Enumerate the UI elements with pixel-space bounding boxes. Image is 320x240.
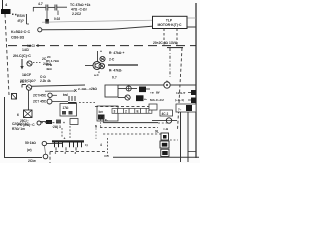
svg-text:TC 47kΩ +1k: TC 47kΩ +1k <box>70 3 91 7</box>
dots right of MIC block <box>12 14 14 16</box>
svg-text:R· 47kΩ·+: R· 47kΩ·+ <box>109 51 125 55</box>
label 0.02 <box>57 11 59 16</box>
svg-text:R7Ω/ 1m: R7Ω/ 1m <box>12 127 25 131</box>
wire: dark mid line from jack <box>42 28 110 30</box>
battery B1 cell 1 <box>161 133 169 140</box>
svg-text:2C?/45C: 2C?/45C <box>33 94 47 98</box>
svg-text:(w): (w) <box>27 148 32 152</box>
wire dashed mid 3 <box>103 133 161 135</box>
wire: rail from Q4 right <box>32 85 86 86</box>
connector J1 (mic jack circle) <box>38 28 42 32</box>
svg-text:×: × <box>98 71 100 75</box>
row 2: jack + plug <box>118 97 125 99</box>
svg-text:1): 1) <box>85 143 88 147</box>
wire: box right to border dark <box>187 26 196 28</box>
head block box B <box>60 104 77 117</box>
speaker box <box>176 104 196 112</box>
connector strip digits <box>112 109 152 114</box>
jack black box right edge 2 <box>188 99 191 101</box>
wire dashed vertical x96 <box>95 125 97 139</box>
wire solid mid <box>103 122 158 124</box>
connector J4 <box>42 141 46 145</box>
wire: light mid line <box>42 20 152 22</box>
wire: cap lead down from top line <box>46 11 48 20</box>
wire dashes to battery right <box>170 139 178 141</box>
wire: left solid vertical bottom <box>4 97 6 158</box>
capacitor C3 blob <box>45 19 49 24</box>
svg-text:X: X <box>74 88 77 93</box>
wire: dashed drop 1 from box <box>163 29 165 47</box>
svg-text:2C?: 2C? <box>20 80 26 84</box>
svg-text:50·1kΩ: 50·1kΩ <box>25 141 36 145</box>
svg-text:0.?: 0.? <box>112 76 117 80</box>
svg-text:12N·/7: 12N·/7 <box>176 91 186 95</box>
svg-text:14C/: 14C/ <box>22 48 29 52</box>
svg-text:CΩ6·3Ω: CΩ6·3Ω <box>11 36 25 40</box>
wire: left dashed bus vertical <box>5 14 9 95</box>
svg-text::E)?: :E)? <box>17 19 24 23</box>
wire: main dashed separator <box>8 45 196 47</box>
battery B1 cell 3 <box>161 149 169 156</box>
wire rail right to lamp <box>118 84 164 86</box>
svg-text:MOTOR·K(T)·C: MOTOR·K(T)·C <box>157 23 182 27</box>
svg-text:×·Ω: ×·Ω <box>163 127 169 131</box>
connector J2 <box>48 93 52 97</box>
svg-text:E·: E· <box>105 118 108 122</box>
svg-text:+: + <box>100 50 102 54</box>
small connector box left of speaker <box>149 104 157 110</box>
motor M1 circle bottom right <box>152 120 166 122</box>
transistor Q4 with bracket <box>22 84 26 86</box>
transistor Q1 circle <box>27 61 32 66</box>
node MIC label (black block top-left) <box>1 9 11 14</box>
svg-text:4.7: 4.7 <box>38 2 43 6</box>
coil blob under box B <box>46 120 52 124</box>
relay K1 box with X <box>24 110 33 118</box>
bottom border right segment <box>113 156 199 158</box>
right border <box>195 3 197 158</box>
ground arrow down <box>21 59 23 67</box>
mid-bottom wires <box>102 116 104 123</box>
left border top segment <box>2 0 4 10</box>
svg-text:2C? 45C: 2C? 45C <box>33 100 47 104</box>
svg-text:3: 3 <box>114 110 116 114</box>
wire lamp to border <box>170 84 196 86</box>
capacitor C2 plates <box>54 5 56 11</box>
wire to Q2 <box>85 65 93 67</box>
wire: dashed mid-bottom separator <box>95 106 155 108</box>
small marks row <box>56 120 61 124</box>
svg-text:av: av <box>156 91 160 95</box>
connector pins cluster <box>68 96 70 101</box>
wire dashed vertical to head 2 <box>69 126 71 138</box>
svg-text:7÷: 7÷ <box>178 108 182 112</box>
svg-text:6: 6 <box>17 113 19 117</box>
svg-text:17Ω: 17Ω <box>63 106 70 110</box>
grid cross short horizontal <box>188 151 196 153</box>
wire: dashed vertical right long <box>178 48 183 130</box>
record head RP1 <box>52 140 84 142</box>
lamp L1 <box>164 82 170 88</box>
svg-text:2N.C(C)·C: 2N.C(C)·C <box>13 54 31 58</box>
connector J3 <box>47 99 52 104</box>
wire: top line <box>33 6 46 8</box>
wire: dash-dot vertical left <box>169 48 171 77</box>
svg-text:+: + <box>63 121 65 125</box>
capacitor C4 bracket <box>26 14 28 24</box>
svg-text:+a·: +a· <box>150 91 154 95</box>
wire: bridge under separator right <box>167 47 183 49</box>
jack black box right edge 1 <box>188 92 191 94</box>
wire: box right to border light <box>187 17 196 19</box>
svg-text:20×2C 3Ω 13VΩ: 20×2C 3Ω 13VΩ <box>153 41 178 45</box>
svg-text:TLP: TLP <box>166 19 173 23</box>
svg-text:·2Ω| 3: ·2Ω| 3 <box>52 125 61 129</box>
bottom border left segment <box>4 157 42 159</box>
svg-text:tw/: tw/ <box>63 93 68 97</box>
wire: dashed drop 2 from box <box>176 29 178 47</box>
block box A (VU) <box>105 85 118 97</box>
svg-text:R· 47kΩ·: R· 47kΩ· <box>109 69 123 73</box>
svg-text:2·C: 2·C <box>109 58 115 62</box>
row 1: lamp + plug <box>118 88 126 90</box>
svg-text:47Ω ·C·Ωr: 47Ω ·C·Ωr <box>71 8 88 12</box>
verticals right grid <box>180 112 182 162</box>
svg-text:2kΩ: 2kΩ <box>91 87 98 91</box>
wire dashed vertical to head <box>61 128 63 138</box>
svg-text:a·: a· <box>166 79 169 83</box>
svg-text:1ΩCF: 1ΩCF <box>22 73 31 77</box>
bottom dashed box top edge <box>50 151 105 153</box>
wire dashed link to box C <box>79 102 95 104</box>
svg-text:4C 2: 4C 2 <box>162 112 169 116</box>
svg-text:0.02: 0.02 <box>54 17 60 21</box>
block box C with bold mark <box>97 106 118 121</box>
bottom dashed box left edge <box>49 152 51 163</box>
svg-text:ESV/: ESV/ <box>17 14 25 18</box>
wire mid rail 2 <box>45 90 75 92</box>
svg-text:2: 2 <box>125 110 127 114</box>
battery B1 cell 2 <box>160 141 169 148</box>
wire dashed mid 2 <box>100 127 158 129</box>
wire stub down at left of top line <box>32 7 34 11</box>
transistor Q2 circle <box>93 62 101 70</box>
svg-text:2.2C2: 2.2C2 <box>72 12 81 16</box>
svg-text:2C/w: 2C/w <box>28 159 36 163</box>
svg-text:2.2k 4k: 2.2k 4k <box>40 79 51 83</box>
svg-text:+-: +- <box>144 98 147 102</box>
svg-text:4kΩ: 4kΩ <box>46 67 52 71</box>
head pins <box>55 147 57 150</box>
svg-text:b×: b× <box>99 110 104 114</box>
node junction dot on separator <box>37 44 39 46</box>
svg-text:MA·C+C2: MA·C+C2 <box>150 98 164 102</box>
wire dashes from Q1 <box>33 62 41 64</box>
svg-text:K=5Ω2·C·C: K=5Ω2·C·C <box>11 30 30 34</box>
capacitor C1 plates <box>45 5 47 11</box>
small outline box <box>70 119 78 125</box>
wire: Q4 emitter down <box>28 90 30 110</box>
switch S1 on left bus <box>12 94 17 100</box>
counter box <box>160 110 173 116</box>
wire dashed vertical small <box>100 116 102 127</box>
svg-text:(+C·4): (+C·4) <box>175 98 184 102</box>
wire Q2 collector up <box>97 51 99 62</box>
svg-text:C2C/Ω? 1C: C2C/Ω? 1C <box>12 122 29 126</box>
svg-text:4: 4 <box>100 143 102 147</box>
block U1: tape mechanism box <box>153 16 188 28</box>
connector J5 on bottom line <box>43 154 48 159</box>
wire dashed after <box>158 122 168 124</box>
wire dashed from small circle left <box>37 121 41 125</box>
svg-text:+: + <box>64 137 66 141</box>
svg-text:9L: 9L <box>155 130 159 134</box>
wire: dark short rail <box>108 64 138 66</box>
